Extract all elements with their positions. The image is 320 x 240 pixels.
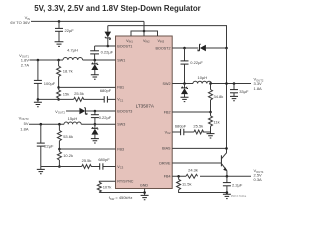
svg-text:18.7k: 18.7k: [63, 68, 73, 73]
node junction BOOST1: [107, 45, 110, 48]
wire VOUT2 right column: [226, 48, 228, 153]
diode D4 catch schottky ch3: [91, 124, 98, 138]
svg-text:680pF: 680pF: [100, 88, 112, 93]
capacitor C11 2.2uF VOUT4: [223, 176, 243, 194]
node junction FB3: [58, 148, 61, 151]
wire FB3: [59, 148, 115, 150]
wire VC3 compensation rail: [41, 166, 116, 168]
node junction divider2 top: [209, 82, 212, 85]
node junction FB1: [57, 86, 60, 89]
ground 33uF: [230, 96, 238, 100]
node junction rail1 / R2 bottom: [57, 98, 60, 101]
node junction SW2 / boost cap: [183, 82, 186, 85]
diode D6 catch schottky ch2: [181, 84, 188, 98]
capacitor C4 680pF comp ch1: [100, 88, 112, 103]
node junction VOUT2 / 33uF: [233, 82, 236, 85]
node junction rail1 / C3 bottom: [37, 98, 40, 101]
svg-text:100µF: 100µF: [44, 81, 56, 86]
inductor L1 4.7uH: [63, 58, 83, 60]
svg-text:5V: 5V: [24, 121, 29, 126]
svg-text:25.5k: 25.5k: [74, 91, 84, 96]
ground catch diode ch3: [91, 139, 99, 143]
node junction divider3 top: [58, 123, 61, 126]
diode D3 boost schottky ch3: [66, 108, 116, 115]
ground GND pin: [141, 195, 149, 199]
svg-text:BOOST1: BOOST1: [117, 44, 132, 48]
node junction VOUT2 line / column: [225, 82, 228, 85]
wire VC2 compensation: [172, 131, 210, 133]
svg-text:107k: 107k: [103, 184, 112, 189]
wire SW2 / VOUT2 line: [172, 83, 193, 85]
svg-text:34.8k: 34.8k: [214, 94, 224, 99]
svg-text:GND: GND: [140, 184, 149, 188]
node junction rail3 / R5 bottom: [58, 165, 61, 168]
svg-text:680pF: 680pF: [98, 157, 110, 162]
wire BOOST2: [172, 47, 226, 49]
capacitor C9 33uF VOUT2: [230, 84, 249, 97]
svg-text:BOOST2: BOOST2: [156, 46, 171, 50]
svg-text:24.3k: 24.3k: [188, 168, 198, 173]
svg-text:SW1: SW1: [117, 58, 125, 62]
wire DRIVE to base: [172, 162, 221, 164]
svg-text:22µF: 22µF: [44, 144, 54, 149]
node junction GND: [143, 191, 146, 194]
node junction boost cap ch2 top: [183, 47, 186, 50]
ground input cap: [55, 42, 64, 47]
svg-text:5V, 3.3V, 2.5V and 1.8V Step-D: 5V, 3.3V, 2.5V and 1.8V Step-Down Regula…: [34, 4, 201, 13]
svg-text:680pF: 680pF: [175, 123, 187, 128]
node junction SW3 / boost cap: [94, 123, 97, 126]
svg-text:BIAS: BIAS: [162, 147, 171, 151]
svg-text:DRIVE: DRIVE: [159, 161, 171, 165]
node junction BOOST2 diode anode: [225, 47, 228, 50]
ground rail1: [34, 102, 42, 106]
svg-text:0.22µF: 0.22µF: [101, 50, 114, 55]
inductor L3 15uH: [64, 122, 81, 124]
node junction VOUT1 / 100uF: [37, 59, 40, 62]
resistor R1 18.7k: [57, 60, 73, 87]
svg-text:53.6k: 53.6k: [63, 134, 73, 139]
svg-text:VOUT2: VOUT2: [55, 109, 65, 115]
wire RT resistor to GND: [99, 192, 144, 194]
svg-text:15µH: 15µH: [68, 116, 78, 121]
wire VIN pins jumper: [131, 31, 158, 36]
node junction FB2: [209, 111, 212, 114]
capacitor C7 680pF comp ch3: [98, 157, 110, 170]
ground catch diode ch2: [181, 97, 189, 101]
svg-text:4.7µH: 4.7µH: [67, 47, 78, 52]
svg-text:11.5k: 11.5k: [182, 181, 192, 186]
capacitor C3 100uF VOUT1: [34, 60, 56, 99]
node junction FB4 / 11.5k: [177, 175, 180, 178]
capacitor C5 0.22uF boost ch3: [91, 111, 112, 124]
resistor R2 15k: [57, 87, 70, 99]
svg-text:2.7A: 2.7A: [21, 63, 30, 68]
wire FB2: [172, 111, 210, 113]
svg-text:0.3A: 0.3A: [254, 177, 263, 182]
capacitor C6 22uF VOUT3: [37, 124, 54, 166]
svg-text:11k: 11k: [214, 119, 220, 124]
svg-text:3507A TA01a: 3507A TA01a: [231, 194, 247, 198]
wire BIAS: [172, 147, 226, 149]
resistor R8 34.8k: [209, 84, 224, 113]
IC U1 LT3507A body: [116, 36, 173, 189]
svg-text:15k: 15k: [63, 92, 69, 97]
wire VIN rail: [31, 20, 144, 22]
svg-text:33µF: 33µF: [239, 89, 249, 94]
svg-text:SW3: SW3: [117, 123, 125, 127]
diode D2 catch schottky ch1: [91, 59, 98, 75]
node junction BOOST3 cap: [94, 110, 97, 113]
resistor R11 24.3k: [186, 174, 198, 178]
resistor R7 107k: [97, 182, 111, 192]
svg-text:1.8A: 1.8A: [20, 126, 29, 131]
capacitor C8 0.22uF boost ch2: [181, 48, 204, 84]
diode D5 boost schottky ch2: [198, 44, 206, 51]
wire GND pin stem: [144, 189, 146, 196]
svg-text:25.5k: 25.5k: [193, 124, 203, 129]
node junction VIN jumper: [143, 30, 146, 33]
svg-text:25.5k: 25.5k: [82, 158, 92, 163]
wire FB1: [59, 86, 116, 88]
wire VOUT2 boost feed top: [108, 26, 227, 48]
svg-text:fSW = 450kHz: fSW = 450kHz: [109, 195, 133, 201]
svg-text:0.22µF: 0.22µF: [99, 115, 112, 120]
wire FB4 / VOUT4 line: [172, 175, 251, 177]
svg-text:10µH: 10µH: [197, 75, 207, 80]
resistor R10 25.5k comp ch2: [194, 130, 204, 134]
resistor R9 11k: [209, 112, 220, 132]
svg-text:FB1: FB1: [117, 86, 124, 90]
svg-text:2.2µF: 2.2µF: [232, 182, 243, 187]
ground VC2 / divider2: [210, 132, 212, 134]
capacitor C10 680pF comp ch2: [175, 123, 187, 135]
resistor R5 10.2k: [57, 149, 73, 167]
svg-text:FB2: FB2: [164, 110, 171, 114]
capacitor C1 22uF input: [55, 21, 74, 41]
svg-text:1.8A: 1.8A: [254, 86, 263, 91]
wire BOOST1: [95, 45, 116, 47]
node junction divider1 top: [57, 59, 60, 62]
resistor R4 53.6k: [57, 124, 73, 149]
diode D1 boost schottky ch1: [105, 26, 112, 46]
svg-text:FB3: FB3: [117, 147, 124, 151]
resistor R6 25.5k comp ch3: [82, 165, 92, 169]
svg-text:22µF: 22µF: [65, 28, 75, 33]
capacitor C2 0.22uF boost ch1: [90, 46, 113, 60]
wire SW1 / VOUT1 line: [30, 59, 64, 61]
svg-text:SW2: SW2: [163, 82, 171, 86]
ground 2.2uF: [223, 194, 231, 198]
wire VC1 compensation rail: [38, 98, 116, 100]
resistor R12 11.5k: [177, 176, 227, 192]
svg-text:FB4: FB4: [164, 175, 171, 179]
svg-text:BOOST3: BOOST3: [117, 109, 132, 113]
node junction VIN / C1: [58, 20, 61, 23]
wire SW3 / VOUT3 line: [29, 123, 64, 125]
svg-text:RT/SYNC: RT/SYNC: [117, 180, 133, 184]
node junction VOUT3 / 22uF: [40, 123, 43, 126]
resistor R3 25.5k comp ch1: [74, 97, 84, 101]
wire VIN drop to VIN pins: [143, 21, 145, 36]
svg-text:6V TO 36V: 6V TO 36V: [10, 20, 30, 25]
node junction BIAS / VOUT2 column: [225, 147, 228, 150]
transistor Q1 NPN: [221, 153, 227, 177]
svg-text:0.22µF: 0.22µF: [190, 60, 203, 65]
wire RT/SYNC: [99, 180, 115, 183]
ground rail3: [37, 169, 45, 173]
svg-text:10.2k: 10.2k: [63, 153, 73, 158]
svg-text:LT3507A: LT3507A: [136, 103, 155, 108]
node junction emitter / VOUT4: [226, 175, 229, 178]
inductor L2 10uH: [193, 81, 211, 83]
ground catch diode ch1: [91, 75, 99, 79]
